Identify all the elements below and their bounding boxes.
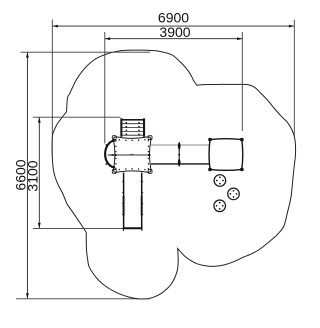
safety area outline (52, 50, 296, 299)
extension line 6600 top (21, 51, 151, 53)
right platform (209, 139, 243, 171)
dimension line 6600 (26, 52, 28, 298)
svg-text:3900: 3900 (159, 24, 190, 40)
pod 3 (214, 200, 226, 212)
arc tick upper (106, 144, 108, 145)
extension line 3900 left (104, 32, 106, 144)
panel corner tabs (112, 136, 152, 174)
ladder rung pins (126, 122, 140, 135)
slide left rail (123, 173, 125, 228)
platform corner posts (208, 138, 243, 171)
panel bolt dots (115, 139, 149, 170)
dimension line 6900 (53, 25, 295, 27)
bridge bottom rail (151, 163, 209, 165)
slide right rail (141, 173, 143, 228)
arc tick lower (106, 163, 108, 164)
climbing arc (105, 141, 115, 168)
ladder right rail (143, 118, 145, 137)
bridge top rail (151, 144, 209, 146)
slide rail thick mid (123, 196, 125, 216)
dimension line 3900 (105, 38, 242, 40)
svg-text:3100: 3100 (24, 160, 40, 191)
slide rail ticks (122, 182, 143, 215)
ladder left rail (120, 118, 122, 137)
slide end bar (123, 227, 143, 229)
dimension line 3100 (38, 117, 40, 228)
panel mid line (108, 154, 151, 156)
extension line 6900 right (293, 20, 295, 137)
extension line 3100 bottom (33, 227, 123, 229)
extension line 3100 top (33, 116, 121, 118)
spindle top bulge (178, 142, 181, 151)
slide end feet (122, 228, 124, 231)
tower platform panel (113, 137, 150, 172)
extension line 6600 bottom (16, 298, 150, 300)
pod 2 (228, 188, 240, 200)
ladder rungs (122, 124, 143, 136)
ladder top bar (121, 119, 144, 121)
extension line 3900 right (241, 32, 243, 131)
extension line 6900 left (51, 20, 53, 158)
spindle post (178, 142, 180, 166)
spindle bottom bulge (178, 158, 181, 167)
pod 1 (214, 175, 226, 187)
